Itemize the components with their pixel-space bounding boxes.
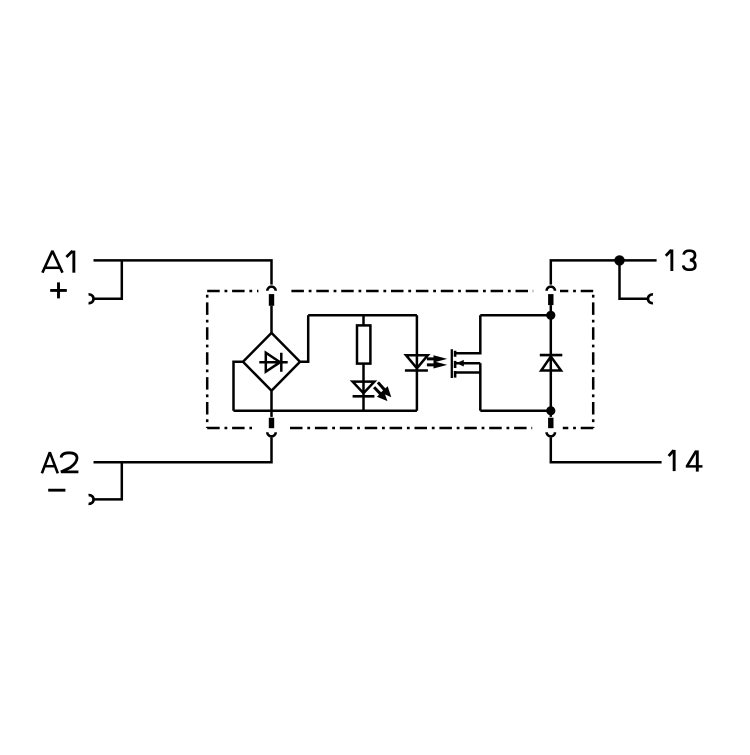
wire pin to bridge [270, 306, 273, 333]
wire bridge right arm [300, 315, 308, 362]
connector crossing bottom output: socket arc [547, 432, 555, 436]
wire resistor branch bottom [362, 364, 365, 411]
terminal label A2 [42, 452, 79, 473]
module boundary dash-dot box bottom edge [207, 427, 593, 430]
MOSFET Q1 body arrowhead [456, 360, 464, 367]
junction node output top [546, 311, 555, 320]
wire optocoupler branch [416, 315, 419, 410]
wire 13 tap stub [620, 260, 649, 298]
terminal label A1 [42, 251, 73, 273]
wire output bottom rail [480, 409, 551, 412]
optocoupler LED cathode bar [405, 369, 428, 372]
wire output vertical [550, 305, 553, 417]
wire A2 socket stub [93, 462, 122, 499]
LED D1 emission arrow 2 [373, 386, 388, 401]
connector crossing top output: socket arc [547, 287, 555, 291]
MOSFET Q1 body lead with arrow [456, 362, 480, 365]
optocoupler LED triangle [406, 355, 428, 368]
optocoupler photon arrow 1 [427, 355, 447, 362]
wire bridge bottom through rail [270, 391, 273, 417]
socket contact A1 [89, 294, 94, 303]
optocoupler photon arrow 2 [427, 361, 447, 368]
MOSFET Q1 source lead [456, 371, 480, 374]
wire A1 lead [94, 260, 272, 284]
connector crossing bottom output: pin [548, 418, 553, 429]
wire A2 lead [94, 438, 272, 463]
junction node output bottom [546, 406, 555, 415]
resistor R1 [357, 325, 370, 363]
MOSFET Q1 channel segments [454, 351, 457, 378]
MOSFET Q1 gate bar [451, 349, 453, 378]
wire terminal 13 lead [551, 260, 657, 284]
MOSFET Q1 drain lead [456, 315, 480, 353]
connector crossing top input: socket arc [267, 287, 275, 291]
wire input top rail [308, 314, 417, 317]
clamp diode D2 triangle [541, 357, 561, 371]
module boundary dash-dot box top edge [207, 290, 593, 293]
wire A1 socket stub [93, 260, 122, 298]
module boundary dash-dot box right edge [592, 291, 595, 428]
junction node 13 [614, 255, 624, 265]
module boundary dash-dot box left edge [206, 291, 209, 428]
wire bridge left arm [234, 362, 244, 411]
connector crossing top input: pin [269, 294, 274, 306]
wire output top rail [480, 314, 551, 317]
wire input bottom rail [234, 409, 417, 412]
socket contact A2 [89, 495, 94, 504]
connector crossing top output: pin [548, 294, 553, 305]
connector crossing bottom input: socket arc [267, 432, 275, 436]
LED D1 emission arrow 1 [377, 381, 392, 397]
polarity minus sign [48, 489, 65, 492]
LED D1 indicator triangle [353, 382, 375, 394]
bridge rectifier B1 diamond [243, 333, 300, 391]
wire resistor branch top [362, 315, 365, 325]
MOSFET Q1 source drop [479, 363, 482, 411]
terminal label 14 [669, 450, 703, 472]
bridge diode symbol [259, 353, 287, 372]
LED D1 cathode bar [353, 395, 375, 398]
connector crossing bottom input: pin [269, 418, 274, 429]
wire terminal 14 lead [551, 438, 662, 463]
polarity plus sign [50, 282, 67, 298]
terminal label 13 [666, 250, 696, 272]
socket contact 13 [648, 294, 653, 303]
clamp diode D2 cathode bar [540, 354, 563, 357]
